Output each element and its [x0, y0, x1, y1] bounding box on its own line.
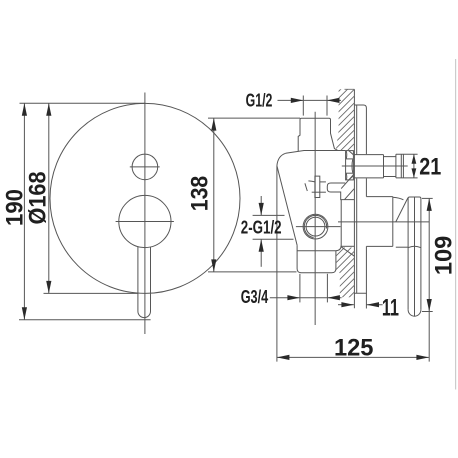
2-G1/2 upper port line: [253, 214, 285, 216]
handle cone bottom line: [396, 246, 408, 248]
lever bottom cap: [408, 310, 421, 316]
side body top stub G1/2: [298, 118, 337, 151]
arrow G1/2 left: [327, 98, 340, 103]
arrow 21 down: [412, 168, 417, 178]
shower outlet collar through wall and plate: [354, 155, 383, 178]
dim 109 bottom extension: [422, 311, 433, 313]
side body left slant edge: [277, 166, 297, 245]
G3/4 extension line a: [299, 274, 301, 303]
side body top-left corner: [277, 153, 286, 166]
G3/4 dimension line: [270, 297, 342, 299]
lever outline: [408, 197, 421, 310]
arrow G3/4 left: [327, 295, 340, 300]
handle cone top curve: [393, 197, 404, 200]
side body bottom edge: [297, 250, 336, 252]
dim 109 line and 125 right extension: [428, 198, 430, 361]
arrow 2-G1/2 up: [259, 239, 264, 252]
arrow O168 up: [46, 103, 51, 116]
svg-text:2-G1/2: 2-G1/2: [241, 218, 282, 238]
dim 109 top extension: [422, 197, 433, 199]
wall face line: [353, 89, 355, 308]
bottom stub G3/4: [297, 245, 336, 273]
dim 190 bottom extension line: [19, 319, 151, 321]
diverter knob horizontal centerline: [130, 166, 160, 168]
arrow 2-G1/2 down: [259, 203, 264, 216]
dim 11 right segment: [367, 304, 383, 306]
lever dome arc: [408, 246, 420, 247]
dim 21 extension lines: [396, 154, 418, 178]
G1/2 dimension line: [278, 99, 342, 101]
dim 138 top extension line: [208, 117, 300, 119]
wall chamfer line under body: [341, 247, 354, 256]
svg-text:Ø168: Ø168: [25, 172, 52, 225]
wall hole bottom line: [341, 245, 354, 247]
wall hatch sliver marks: [341, 174, 354, 199]
stem line to handle: [338, 221, 429, 223]
page border line right: [455, 59, 457, 390]
dim 11 left segment: [338, 304, 354, 306]
2-G1/2 lower port line: [253, 238, 294, 240]
svg-text:11: 11: [382, 295, 399, 322]
side vertical centerline: [314, 112, 316, 325]
arrow 138 down: [211, 259, 216, 272]
arrow 190 down: [22, 307, 27, 320]
arrow 109 down: [427, 299, 432, 312]
set screw left curve tick: [308, 181, 315, 182]
cover plate: [355, 105, 367, 293]
set screw slant stroke: [305, 183, 307, 191]
handle base circle: [119, 195, 171, 247]
svg-text:G1/2: G1/2: [246, 91, 273, 111]
arrow O168 down: [46, 281, 51, 294]
arrow 138 up: [211, 118, 216, 131]
dim 11 extension line: [365, 293, 367, 308]
lever axis line: [414, 197, 416, 316]
svg-text:138: 138: [187, 176, 214, 212]
shower outlet end flange: [396, 154, 404, 178]
arrow 125 left: [277, 355, 290, 360]
arrow 125 right: [416, 355, 429, 360]
side outlet port inner circle: [306, 217, 325, 236]
arrow G3/4 right: [287, 295, 300, 300]
hex nut facet line lower: [346, 172, 354, 174]
front vertical centerline: [144, 93, 146, 335]
hex nut facet line upper: [346, 158, 354, 160]
hex nut chamfer marks: [346, 151, 353, 180]
dim 125 line: [277, 356, 429, 358]
handle hub: [366, 197, 392, 247]
side outlet port outer circle: [303, 214, 328, 239]
side outlet port horizontal centerline: [296, 226, 341, 228]
arrow G1/2 right: [291, 98, 304, 103]
G1/2 extension line b: [326, 96, 328, 116]
svg-text:125: 125: [334, 334, 374, 361]
set screw body: [315, 176, 320, 197]
dim 138 line: [213, 118, 215, 272]
dim O168 line: [48, 103, 50, 293]
svg-text:G3/4: G3/4: [241, 287, 269, 307]
dim 125 left extension: [276, 166, 278, 362]
arrow 190 up: [22, 103, 27, 116]
arrow 11 right: [341, 302, 354, 307]
2-G1/2 lower arrow tail: [260, 239, 262, 267]
arrow 109 up: [427, 198, 432, 211]
wall hatch upper: [334, 72, 358, 171]
G1/2 extension line a: [302, 96, 304, 116]
dim 190 top extension line: [20, 102, 146, 104]
G3/4 extension line b: [326, 274, 328, 303]
side body top face: [286, 151, 346, 154]
svg-text:21: 21: [419, 154, 441, 181]
shower outlet narrow pipe: [384, 157, 396, 177]
handle base horizontal centerline: [116, 221, 174, 223]
dim 138 bottom extension line: [208, 271, 297, 273]
dim O168 bottom extension line: [44, 292, 139, 294]
2-G1/2 upper arrow tail: [260, 196, 262, 215]
dim 190 line: [23, 103, 25, 319]
side outlet port thread arc: [304, 215, 326, 237]
wall top tick: [345, 88, 355, 90]
arrow 21 up: [412, 154, 417, 164]
side body right edge: [336, 200, 342, 251]
dim 21 line: [413, 154, 415, 178]
wall hatch lower: [333, 234, 358, 313]
diverter knob small circle: [132, 154, 158, 180]
outlet pipe centerline: [342, 165, 408, 167]
front lever rod: [138, 247, 151, 318]
front plate circle O168: [50, 103, 240, 293]
mounting bracket stub: [327, 183, 354, 200]
set screw right tick: [320, 181, 326, 183]
hex nut: [346, 151, 354, 180]
svg-text:109: 109: [431, 236, 458, 276]
arrow 11 left: [367, 302, 380, 307]
handle cone diagonal: [396, 198, 408, 222]
set screw lower tick: [312, 191, 326, 193]
